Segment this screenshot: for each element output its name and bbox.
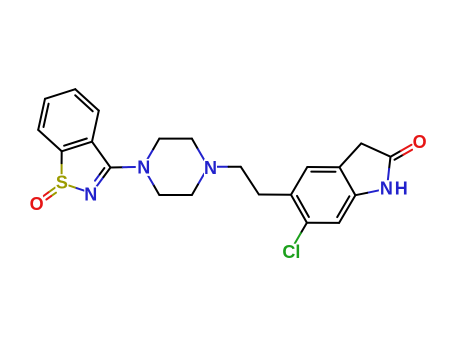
svg-text:N: N: [84, 185, 97, 205]
svg-text:O: O: [413, 132, 427, 152]
svg-text:N: N: [137, 157, 150, 177]
svg-text:H: H: [395, 179, 408, 199]
svg-text:N: N: [380, 179, 393, 199]
svg-text:N: N: [204, 158, 217, 178]
svg-text:O: O: [30, 194, 44, 214]
svg-text:S: S: [56, 173, 68, 193]
svg-text:Cl: Cl: [282, 242, 300, 262]
